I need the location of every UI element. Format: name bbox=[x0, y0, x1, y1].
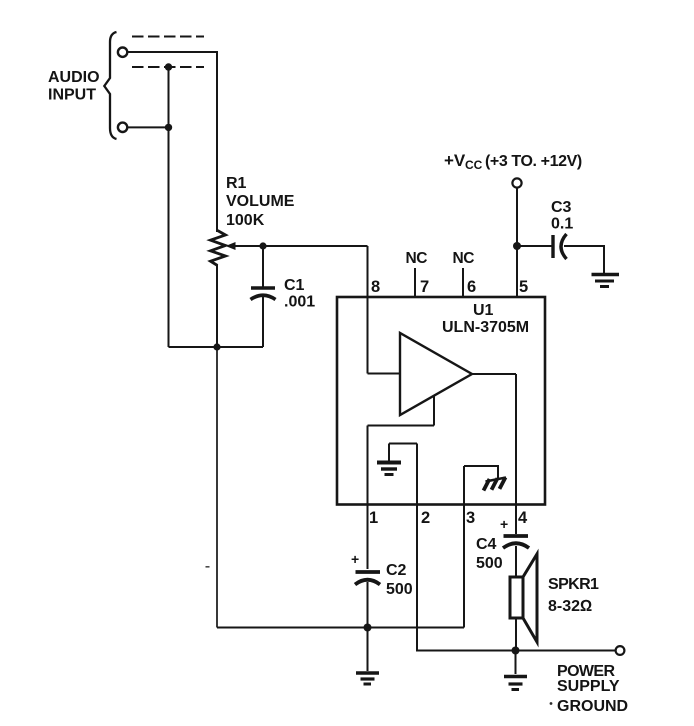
svg-text:4: 4 bbox=[518, 509, 528, 527]
label U1 ULN-3705M bbox=[442, 302, 529, 336]
capacitor C2 bbox=[356, 570, 381, 574]
wire: C3 to ground corner bbox=[564, 246, 604, 273]
wire: bottom ground bus bbox=[217, 627, 464, 629]
svg-text:SUPPLY: SUPPLY bbox=[557, 678, 620, 695]
wire: ground bus at y=347 bbox=[169, 346, 264, 348]
resistor R1 (potentiometer) zigzag bbox=[211, 231, 226, 266]
wire: internal ground to pin 2 bbox=[416, 444, 418, 505]
svg-text:AUDIO: AUDIO bbox=[48, 69, 100, 86]
svg-text:C2: C2 bbox=[386, 562, 407, 579]
pin 6 stub bbox=[462, 268, 464, 297]
speck artifact left of ground run bbox=[206, 566, 210, 568]
wire: amp output to pin 4 column bbox=[472, 373, 516, 375]
node: Vcc junction dot bbox=[513, 242, 521, 250]
svg-text:3: 3 bbox=[466, 509, 475, 527]
wire: pin 4 / C4 top lead bbox=[515, 504, 517, 534]
svg-text:6: 6 bbox=[467, 278, 476, 296]
svg-text:+: + bbox=[500, 516, 508, 532]
svg-text:C3: C3 bbox=[551, 199, 572, 216]
wire: pin 4 vertical bbox=[515, 374, 517, 504]
svg-text:R1: R1 bbox=[226, 175, 247, 192]
op-amp U1 package box bbox=[337, 297, 545, 505]
wire: pin 3 internal bbox=[463, 466, 465, 504]
svg-text:NC: NC bbox=[406, 250, 428, 267]
audio input shield dashed line top bbox=[132, 36, 204, 38]
wire: speaker bottom lead bbox=[515, 618, 517, 651]
svg-text:C4: C4 bbox=[476, 536, 497, 553]
wire: R1 bottom lead bbox=[216, 265, 218, 347]
svg-text:0.1: 0.1 bbox=[551, 216, 573, 233]
label R1 VOLUME 100K bbox=[226, 175, 295, 229]
wire: pin 1 to C2 bbox=[367, 504, 369, 569]
wire: wiper to pin 8 column bbox=[233, 245, 368, 247]
wire: feedback down to pin 1 bbox=[367, 426, 369, 505]
terminal: power supply ground (open circle) bbox=[616, 646, 625, 655]
speck artifact near GROUND bbox=[550, 702, 553, 705]
svg-text:U1: U1 bbox=[473, 302, 494, 319]
wire: C1 bottom lead bbox=[262, 297, 264, 347]
brace for audio input bbox=[104, 32, 116, 139]
R1 wiper arrow head bbox=[226, 242, 236, 250]
wire: ground terminal to junction bbox=[128, 126, 169, 128]
speaker horn bbox=[523, 554, 537, 642]
ground symbol inside IC bbox=[389, 443, 417, 445]
svg-text:C1: C1 bbox=[284, 277, 305, 294]
wire: pin 2 down and right bbox=[417, 504, 516, 651]
ground below speaker junction bbox=[515, 651, 517, 675]
svg-text:+V: +V bbox=[444, 151, 466, 170]
ground below C2 bbox=[367, 628, 369, 672]
svg-text:1: 1 bbox=[369, 509, 378, 527]
node: C2 ground junction dot bbox=[364, 624, 372, 632]
svg-text:5: 5 bbox=[519, 278, 528, 296]
node: ground lead junction dot bbox=[165, 124, 172, 131]
pin 7 stub bbox=[414, 268, 416, 297]
svg-text:+: + bbox=[351, 551, 359, 567]
svg-text:(+3 TO. +12V): (+3 TO. +12V) bbox=[485, 153, 582, 170]
ground at C3 bbox=[592, 273, 620, 276]
svg-text:ULN-3705M: ULN-3705M bbox=[442, 319, 529, 336]
op-amp triangle bbox=[400, 333, 472, 415]
svg-text:GROUND: GROUND bbox=[557, 698, 628, 715]
pin numbers top 8 7 6 5 bbox=[371, 278, 528, 296]
capacitor C1 bbox=[262, 246, 264, 287]
svg-text:8: 8 bbox=[371, 278, 380, 296]
svg-text:VOLUME: VOLUME bbox=[226, 193, 295, 210]
svg-text:8-32Ω: 8-32Ω bbox=[548, 598, 592, 615]
wire: into amp input bbox=[368, 373, 401, 375]
node: shield junction dot on lower dashed line bbox=[165, 63, 172, 70]
wire: to power supply ground terminal bbox=[516, 650, 616, 652]
label C2 500 with + bbox=[351, 551, 413, 598]
label SPKR1 8-32ohm bbox=[548, 576, 599, 615]
label C1 .001 bbox=[284, 277, 315, 311]
label C3 0.1 bbox=[551, 199, 573, 233]
wire: C2 bottom lead bbox=[367, 582, 369, 628]
node: junction dot at C1 top bbox=[259, 242, 266, 249]
svg-text:NC: NC bbox=[453, 250, 475, 267]
wire: long vertical ground run bbox=[216, 347, 218, 628]
svg-text:100K: 100K bbox=[226, 212, 265, 229]
wire: Vcc vertical to pin 5 bbox=[516, 188, 518, 297]
wire: C4 to speaker bbox=[515, 546, 517, 577]
chassis ground symbol bbox=[486, 478, 507, 482]
svg-text:CC: CC bbox=[465, 158, 483, 172]
svg-text:INPUT: INPUT bbox=[48, 87, 96, 104]
terminal: audio input ground (open circle) bbox=[118, 123, 127, 132]
label NC NC bbox=[406, 250, 475, 267]
wire: pin 8 vertical into IC bbox=[367, 246, 369, 374]
label POWER SUPPLY GROUND bbox=[557, 663, 628, 715]
label AUDIO INPUT bbox=[48, 69, 100, 104]
audio input shield dashed line lower bbox=[132, 66, 204, 68]
node: junction dot R1 bottom on bus bbox=[213, 343, 220, 350]
terminal: audio input hot (open circle) bbox=[118, 48, 127, 57]
wire: feedback from triangle bottom edge bbox=[433, 395, 435, 426]
svg-text:.001: .001 bbox=[284, 294, 315, 311]
speaker SPKR1 body bbox=[510, 577, 523, 618]
label C4 500 with + bbox=[476, 516, 508, 572]
svg-text:SPKR1: SPKR1 bbox=[548, 576, 599, 593]
wire: vertical down to R1 top bbox=[216, 51, 218, 232]
pin numbers bottom 1 2 3 4 bbox=[369, 509, 528, 527]
capacitor C4 bbox=[504, 534, 529, 538]
wire: to chassis ground bbox=[464, 466, 498, 478]
svg-text:2: 2 bbox=[421, 509, 430, 527]
wire: Vcc to C3 bbox=[517, 245, 552, 247]
wire: shield/ground vertical down bbox=[168, 67, 170, 347]
svg-text:500: 500 bbox=[476, 555, 503, 572]
wire: pin 3 below box to ground bus bbox=[463, 504, 465, 628]
label +Vcc (+3 TO. +12V) bbox=[444, 151, 582, 172]
wire: hot terminal to corner bbox=[128, 51, 217, 53]
svg-text:500: 500 bbox=[386, 581, 413, 598]
capacitor C3 bbox=[551, 235, 554, 258]
svg-text:7: 7 bbox=[420, 278, 429, 296]
terminal: +Vcc (open circle) bbox=[512, 178, 521, 187]
node: speaker output junction dot bbox=[512, 647, 520, 655]
wire: feedback horizontal bbox=[368, 425, 435, 427]
